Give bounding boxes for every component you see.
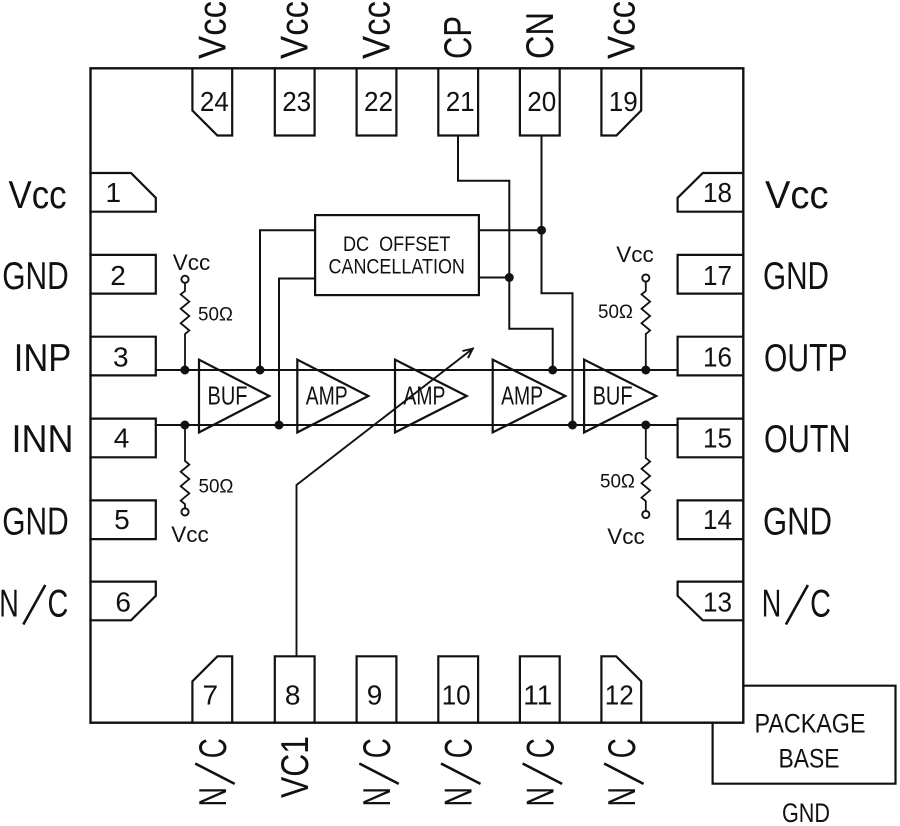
svg-text:N: N <box>519 787 562 807</box>
pin 9 <box>357 656 397 722</box>
wire INP rail <box>156 369 678 371</box>
op-amp AMP1 <box>297 360 368 433</box>
svg-text:Vcc: Vcc <box>191 1 234 59</box>
svg-text:C: C <box>438 738 481 758</box>
junction node CN bottom rail <box>568 421 577 430</box>
junction node CP x box right <box>505 273 514 282</box>
svg-text:AMP: AMP <box>403 383 445 411</box>
svg-text:N: N <box>0 583 19 626</box>
Vcc terminal circle R3 <box>642 274 649 281</box>
svg-text:BUF: BUF <box>593 383 633 411</box>
pin 5 <box>91 500 156 539</box>
wire VC1 pin8 gain control <box>297 349 473 657</box>
svg-text:10: 10 <box>442 679 471 710</box>
svg-text:Vcc: Vcc <box>356 1 399 59</box>
svg-text:Vcc: Vcc <box>600 1 643 59</box>
svg-text:14: 14 <box>703 504 732 535</box>
svg-text:20: 20 <box>527 86 556 117</box>
svg-text:C: C <box>601 738 644 758</box>
svg-text:23: 23 <box>282 86 311 117</box>
svg-text:INN: INN <box>12 418 74 461</box>
pin 19 <box>601 68 641 135</box>
svg-text:Vcc: Vcc <box>9 174 67 217</box>
svg-text:N: N <box>601 787 644 807</box>
svg-text:3: 3 <box>113 342 129 373</box>
svg-text:17: 17 <box>703 260 732 291</box>
svg-text:PACKAGE: PACKAGE <box>755 708 866 738</box>
svg-text:BASE: BASE <box>779 743 840 773</box>
label N/C pin10 rotated <box>438 738 481 806</box>
package base box <box>713 686 896 784</box>
label N/C pin13 <box>762 583 831 626</box>
svg-text:GND: GND <box>2 500 69 543</box>
svg-text:11: 11 <box>523 679 552 710</box>
svg-text:GND: GND <box>763 500 832 543</box>
pin 8 <box>275 656 315 722</box>
junction node pin4/R2 <box>180 421 189 430</box>
junction node CP top rail <box>548 366 557 375</box>
pin 15 <box>678 419 744 458</box>
svg-text:N: N <box>192 787 235 807</box>
pin 18 <box>678 173 744 212</box>
svg-text:50Ω: 50Ω <box>598 301 633 323</box>
svg-text:C: C <box>48 583 69 626</box>
svg-text:Vcc: Vcc <box>173 250 211 275</box>
op-amp BUF1 <box>199 360 269 433</box>
pin 22 <box>357 68 397 135</box>
svg-text:C: C <box>192 738 235 758</box>
svg-text:AMP: AMP <box>306 383 348 411</box>
resistor R1 50ohm left-top <box>181 283 190 370</box>
pin 3 <box>91 337 156 376</box>
svg-text:Vcc: Vcc <box>765 174 829 217</box>
pin 7 <box>192 656 232 722</box>
svg-text:18: 18 <box>703 177 732 208</box>
label N/C pin11 rotated <box>519 738 562 806</box>
svg-text:DC OFFSET: DC OFFSET <box>343 233 451 256</box>
svg-text:1: 1 <box>106 177 122 208</box>
arrowhead VC1 <box>463 349 472 358</box>
Vcc terminal circle R1 <box>181 276 188 283</box>
label N/C pin7 rotated <box>192 738 235 806</box>
svg-text:GND: GND <box>2 255 69 298</box>
svg-text:4: 4 <box>114 422 130 453</box>
wire box upper-left to top rail <box>260 230 315 370</box>
pin 4 <box>91 419 156 458</box>
pin 10 <box>438 656 478 722</box>
svg-text:BUF: BUF <box>208 383 248 411</box>
svg-text:9: 9 <box>367 679 383 710</box>
wire box upper-right <box>479 229 542 231</box>
junction node CN x box right <box>537 226 546 235</box>
junction node bottom rail / box left <box>275 421 284 430</box>
label N/C pin6 <box>0 583 68 626</box>
pin 11 <box>520 656 560 722</box>
pin 12 <box>601 656 641 722</box>
Vcc terminal circle R4 <box>642 511 649 518</box>
svg-text:50Ω: 50Ω <box>199 476 234 498</box>
wire box lower-right <box>479 277 509 279</box>
svg-text:5: 5 <box>114 504 130 535</box>
pin 16 <box>678 337 744 376</box>
svg-text:22: 22 <box>364 86 393 117</box>
junction node top rail / box left <box>256 366 265 375</box>
pin 1 <box>91 173 156 212</box>
op-amp AMP2 <box>395 360 467 433</box>
pin 21 <box>438 68 478 135</box>
pin 24 <box>192 68 232 135</box>
svg-text:C: C <box>356 738 399 758</box>
wire CN pin20 to bottom rail <box>542 136 573 426</box>
svg-text:50Ω: 50Ω <box>600 471 635 493</box>
svg-text:GND: GND <box>763 255 829 298</box>
svg-text:13: 13 <box>703 586 732 617</box>
svg-text:CP: CP <box>437 16 480 59</box>
wire INN rail <box>156 424 678 426</box>
resistor R4 50ohm right-bottom <box>642 425 651 511</box>
op-amp AMP3 <box>493 360 566 433</box>
svg-text:AMP: AMP <box>501 383 543 411</box>
svg-text:C: C <box>519 738 562 758</box>
svg-text:CN: CN <box>519 12 562 59</box>
svg-text:N: N <box>762 583 782 626</box>
svg-text:OUTP: OUTP <box>764 337 848 380</box>
wire box lower-left to bottom rail <box>279 279 315 426</box>
junction node R4 bottom rail <box>641 421 650 430</box>
junction node R3 top rail <box>641 366 650 375</box>
svg-text:Vcc: Vcc <box>171 522 209 547</box>
svg-text:6: 6 <box>115 586 131 617</box>
pin 2 <box>91 255 156 294</box>
svg-text:8: 8 <box>285 679 301 710</box>
svg-text:C: C <box>810 583 831 626</box>
svg-text:19: 19 <box>609 86 638 117</box>
svg-text:24: 24 <box>200 86 229 117</box>
label N/C pin12 rotated <box>601 738 644 806</box>
svg-text:N: N <box>356 787 399 807</box>
resistor R3 50ohm right-top <box>642 282 651 370</box>
svg-text:12: 12 <box>605 679 634 710</box>
pin 20 <box>520 68 560 135</box>
package outline U1 <box>91 68 744 722</box>
svg-text:Vcc: Vcc <box>607 524 645 549</box>
op-amp BUF2 <box>584 360 656 433</box>
svg-text:21: 21 <box>446 86 475 117</box>
svg-text:N: N <box>438 787 481 807</box>
wire CP pin21 to top rail <box>458 136 553 371</box>
svg-text:50Ω: 50Ω <box>198 304 233 326</box>
pin 13 <box>678 582 744 621</box>
svg-text:16: 16 <box>703 342 732 373</box>
svg-text:2: 2 <box>110 260 126 291</box>
svg-text:Vcc: Vcc <box>274 1 317 59</box>
svg-text:CANCELLATION: CANCELLATION <box>329 255 465 278</box>
svg-text:15: 15 <box>703 422 732 453</box>
svg-text:Vcc: Vcc <box>616 242 654 267</box>
pin 17 <box>678 255 744 294</box>
DC offset cancellation block <box>315 215 479 295</box>
Vcc terminal circle R2 <box>181 508 188 515</box>
resistor R2 50ohm left-bottom <box>181 425 190 508</box>
svg-text:GND: GND <box>782 798 830 826</box>
svg-text:INP: INP <box>14 337 72 380</box>
svg-text:7: 7 <box>203 679 219 710</box>
svg-text:OUTN: OUTN <box>764 418 851 461</box>
pin 6 <box>91 582 156 621</box>
junction node pin3/R1 <box>180 366 189 375</box>
label N/C pin9 rotated <box>356 738 399 806</box>
pin 23 <box>275 68 315 135</box>
svg-text:VC1: VC1 <box>274 736 317 798</box>
pin 14 <box>678 500 744 539</box>
